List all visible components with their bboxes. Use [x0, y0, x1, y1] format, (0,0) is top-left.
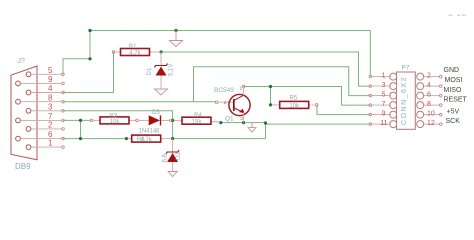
- wire R1 right to P7 pin3: [161, 52, 370, 86]
- ground at Q1 emitter: [248, 123, 256, 133]
- transistor Q1 BC549: [214, 85, 250, 122]
- svg-text:4.7k: 4.7k: [129, 51, 141, 57]
- resistor R3: [90, 114, 138, 125]
- wire R5 right down to P7 pin9: [317, 105, 370, 115]
- resistor R4 with overlapping labels R2 / 1N4148: [174, 113, 220, 125]
- svg-text:8: 8: [48, 93, 53, 102]
- DB9 pin numbers: [48, 66, 53, 148]
- svg-text:4: 4: [48, 84, 53, 93]
- svg-text:11: 11: [380, 120, 387, 127]
- svg-text:SCK: SCK: [446, 118, 461, 125]
- P7 pin numbers: [380, 73, 435, 128]
- svg-text:9: 9: [48, 75, 53, 84]
- svg-text:CONN_6X2: CONN_6X2: [401, 76, 408, 125]
- junction R2 left: [125, 137, 128, 140]
- junction R2 right / D2: [171, 137, 174, 140]
- svg-text:5: 5: [48, 66, 53, 75]
- svg-text:1N4148: 1N4148: [139, 128, 161, 134]
- svg-text:Q1: Q1: [225, 116, 234, 123]
- svg-text:R1: R1: [129, 44, 137, 50]
- svg-text:D2: D2: [176, 152, 182, 160]
- svg-text:+5V: +5V: [447, 108, 460, 115]
- junction pin3 net at R3 row: [171, 119, 174, 122]
- svg-text:8: 8: [427, 101, 431, 108]
- zener diode D1 5,1V: [147, 52, 174, 89]
- svg-text:10: 10: [427, 111, 435, 118]
- P7 left pin lines: [372, 77, 392, 125]
- svg-text:4.7k: 4.7k: [141, 137, 153, 143]
- resistor R1: [112, 44, 160, 57]
- svg-text:2: 2: [427, 73, 431, 80]
- ground on top wire: [170, 31, 183, 47]
- svg-text:6,8: 6,8: [163, 153, 169, 162]
- svg-text:1: 1: [382, 73, 386, 80]
- svg-text:5: 5: [382, 92, 386, 99]
- svg-text:3: 3: [48, 102, 53, 111]
- DB9 pin lines: [21, 74, 62, 147]
- svg-text:5,1V: 5,1V: [168, 64, 174, 76]
- diode D3 1N4148: [138, 110, 172, 126]
- svg-text:9: 9: [382, 111, 386, 118]
- wire DB9 pin7 to R3 left: [63, 119, 91, 121]
- svg-text:3: 3: [382, 82, 386, 89]
- svg-text:MOSI: MOSI: [445, 77, 463, 84]
- svg-text:10k: 10k: [110, 119, 121, 125]
- svg-text:10k: 10k: [289, 104, 300, 110]
- svg-text:6: 6: [427, 92, 431, 99]
- svg-text:MISO: MISO: [444, 87, 462, 94]
- svg-text:R5: R5: [290, 96, 298, 102]
- wire collector junction down to R5 left: [270, 87, 272, 105]
- ground below D1: [155, 89, 168, 95]
- svg-text:J?: J?: [18, 58, 26, 65]
- connector J? DB9 shell: [11, 66, 37, 160]
- svg-text:12: 12: [427, 120, 435, 127]
- wire top horizontal net to P7 pin1: [90, 31, 370, 77]
- svg-text:DB9: DB9: [15, 162, 31, 171]
- svg-text:RESET: RESET: [444, 96, 468, 103]
- svg-text:D1: D1: [147, 67, 153, 75]
- junction Q1 emitter: [242, 121, 245, 124]
- zener diode D2 6,8: [163, 139, 183, 172]
- junction collector / R5: [269, 85, 272, 88]
- wire base node up and over to P7 pin5: [194, 67, 371, 102]
- svg-text:15k: 15k: [192, 119, 203, 125]
- svg-text:1: 1: [48, 139, 53, 148]
- junction at top corner: [88, 29, 91, 32]
- ground below D2: [168, 172, 177, 177]
- wire DB9 pin8 to Q1 base: [63, 101, 216, 103]
- resistor R5: [272, 96, 318, 110]
- junction at GND stub on top wire: [174, 29, 177, 32]
- resistor R2: [128, 128, 172, 143]
- svg-text:R4: R4: [194, 113, 202, 119]
- DB9 pin circles: [16, 72, 31, 150]
- DB9 pin end circles: [62, 73, 65, 148]
- svg-text:2: 2: [224, 100, 227, 105]
- junction R1 right / D1: [159, 50, 162, 53]
- wire R2 right to riser: [173, 123, 266, 139]
- wire emitter net to P7 pin11: [266, 123, 371, 125]
- P7 right pin lines: [424, 77, 440, 125]
- svg-text:GND: GND: [444, 67, 460, 74]
- junction R5 left pin: [269, 103, 272, 106]
- svg-text:P7: P7: [402, 64, 410, 71]
- svg-text:D3: D3: [152, 110, 160, 116]
- junction R4 right: [219, 121, 222, 124]
- wire DB9 pin4 to R1 left: [63, 52, 114, 93]
- junction DB9 pin7 branch: [79, 119, 82, 122]
- junction at pin5 step corner: [88, 57, 91, 60]
- wire pin7 junction down to pin6 net: [80, 120, 82, 138]
- wire R4 right to emitter node: [221, 122, 266, 124]
- P7 right pin end circles: [440, 75, 443, 125]
- junction pin6 net / pin7 branch: [79, 137, 82, 140]
- wire GND-top vertical from DB9 pin5: [63, 31, 90, 75]
- P7 left pin end circles: [369, 75, 372, 125]
- svg-text:2: 2: [48, 121, 53, 130]
- svg-text:BC549: BC549: [214, 87, 234, 94]
- wire DB9 pin3 down to D3/R4 node and D2 node: [63, 111, 173, 139]
- wire DB9 pin6 to R2 left: [63, 138, 127, 140]
- svg-text:7: 7: [382, 101, 386, 108]
- faint corner marks: [449, 15, 467, 17]
- wire Q1 collector to junction: [244, 87, 371, 106]
- svg-text:4: 4: [427, 82, 431, 89]
- svg-text:3: 3: [240, 116, 243, 121]
- connector P7 CONN_6X2: [390, 64, 424, 129]
- junction riser corner: [264, 121, 267, 124]
